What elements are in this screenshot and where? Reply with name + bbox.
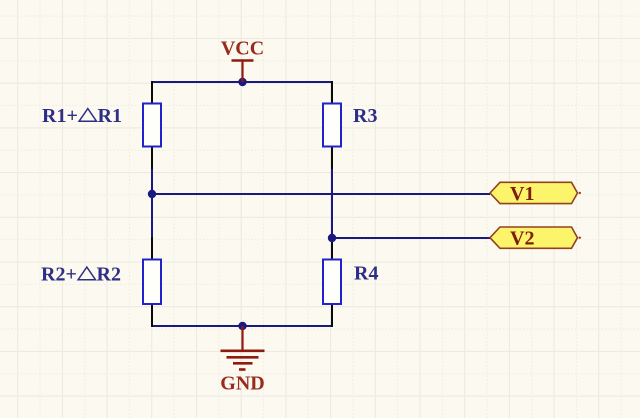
resistor R2+dR2 body: [143, 260, 161, 305]
pin R4 bottom: [331, 304, 333, 327]
wire V1 net from left mid node to port V1: [152, 193, 490, 195]
pin R3 top: [331, 81, 333, 104]
svg-text:R1: R1: [98, 105, 122, 127]
label VCC: [221, 38, 264, 60]
svg-text:R1+: R1+: [42, 105, 78, 127]
junction VCC node on top bus: [238, 78, 246, 86]
pin R1 top: [151, 81, 153, 104]
label R4: [354, 263, 378, 285]
power symbol VCC (bar style): [232, 61, 254, 83]
svg-text:V2: V2: [510, 228, 534, 250]
svg-text:VCC: VCC: [221, 38, 264, 60]
junction right mid node: [328, 234, 336, 242]
label GND: [220, 373, 264, 395]
svg-text:R2: R2: [97, 264, 121, 286]
wire left branch between R1 and R2: [151, 169, 153, 238]
svg-text:V1: V1: [510, 183, 534, 205]
svg-text:R2+: R2+: [41, 264, 77, 286]
resistor R1+dR1 body: [143, 104, 161, 147]
label R2+dR2: [41, 264, 121, 286]
pin R1 bottom: [151, 147, 153, 170]
resistor R4 body: [323, 260, 341, 305]
svg-text:R4: R4: [354, 263, 378, 285]
port V1: [490, 182, 581, 205]
resistor R3 body: [323, 104, 341, 147]
junction left mid node: [148, 190, 156, 198]
wire bottom bus from left branch to right branch: [152, 325, 332, 327]
svg-text:GND: GND: [220, 373, 264, 395]
wire V2 net from right mid node to port V2: [332, 237, 490, 239]
pin R3 bottom: [331, 147, 333, 170]
port V2: [490, 227, 581, 250]
wire top bus from left branch to right branch: [152, 81, 332, 83]
pin R4 top: [331, 238, 333, 260]
label R3: [353, 105, 377, 127]
pin R2 top: [151, 237, 153, 260]
junction GND node on bottom bus: [238, 322, 246, 330]
ground symbol GND: [221, 326, 265, 370]
svg-text:R3: R3: [353, 105, 377, 127]
label R1+dR1: [42, 105, 122, 127]
pin R2 bottom: [151, 304, 153, 327]
wire right branch between R3 and R4: [331, 169, 333, 238]
